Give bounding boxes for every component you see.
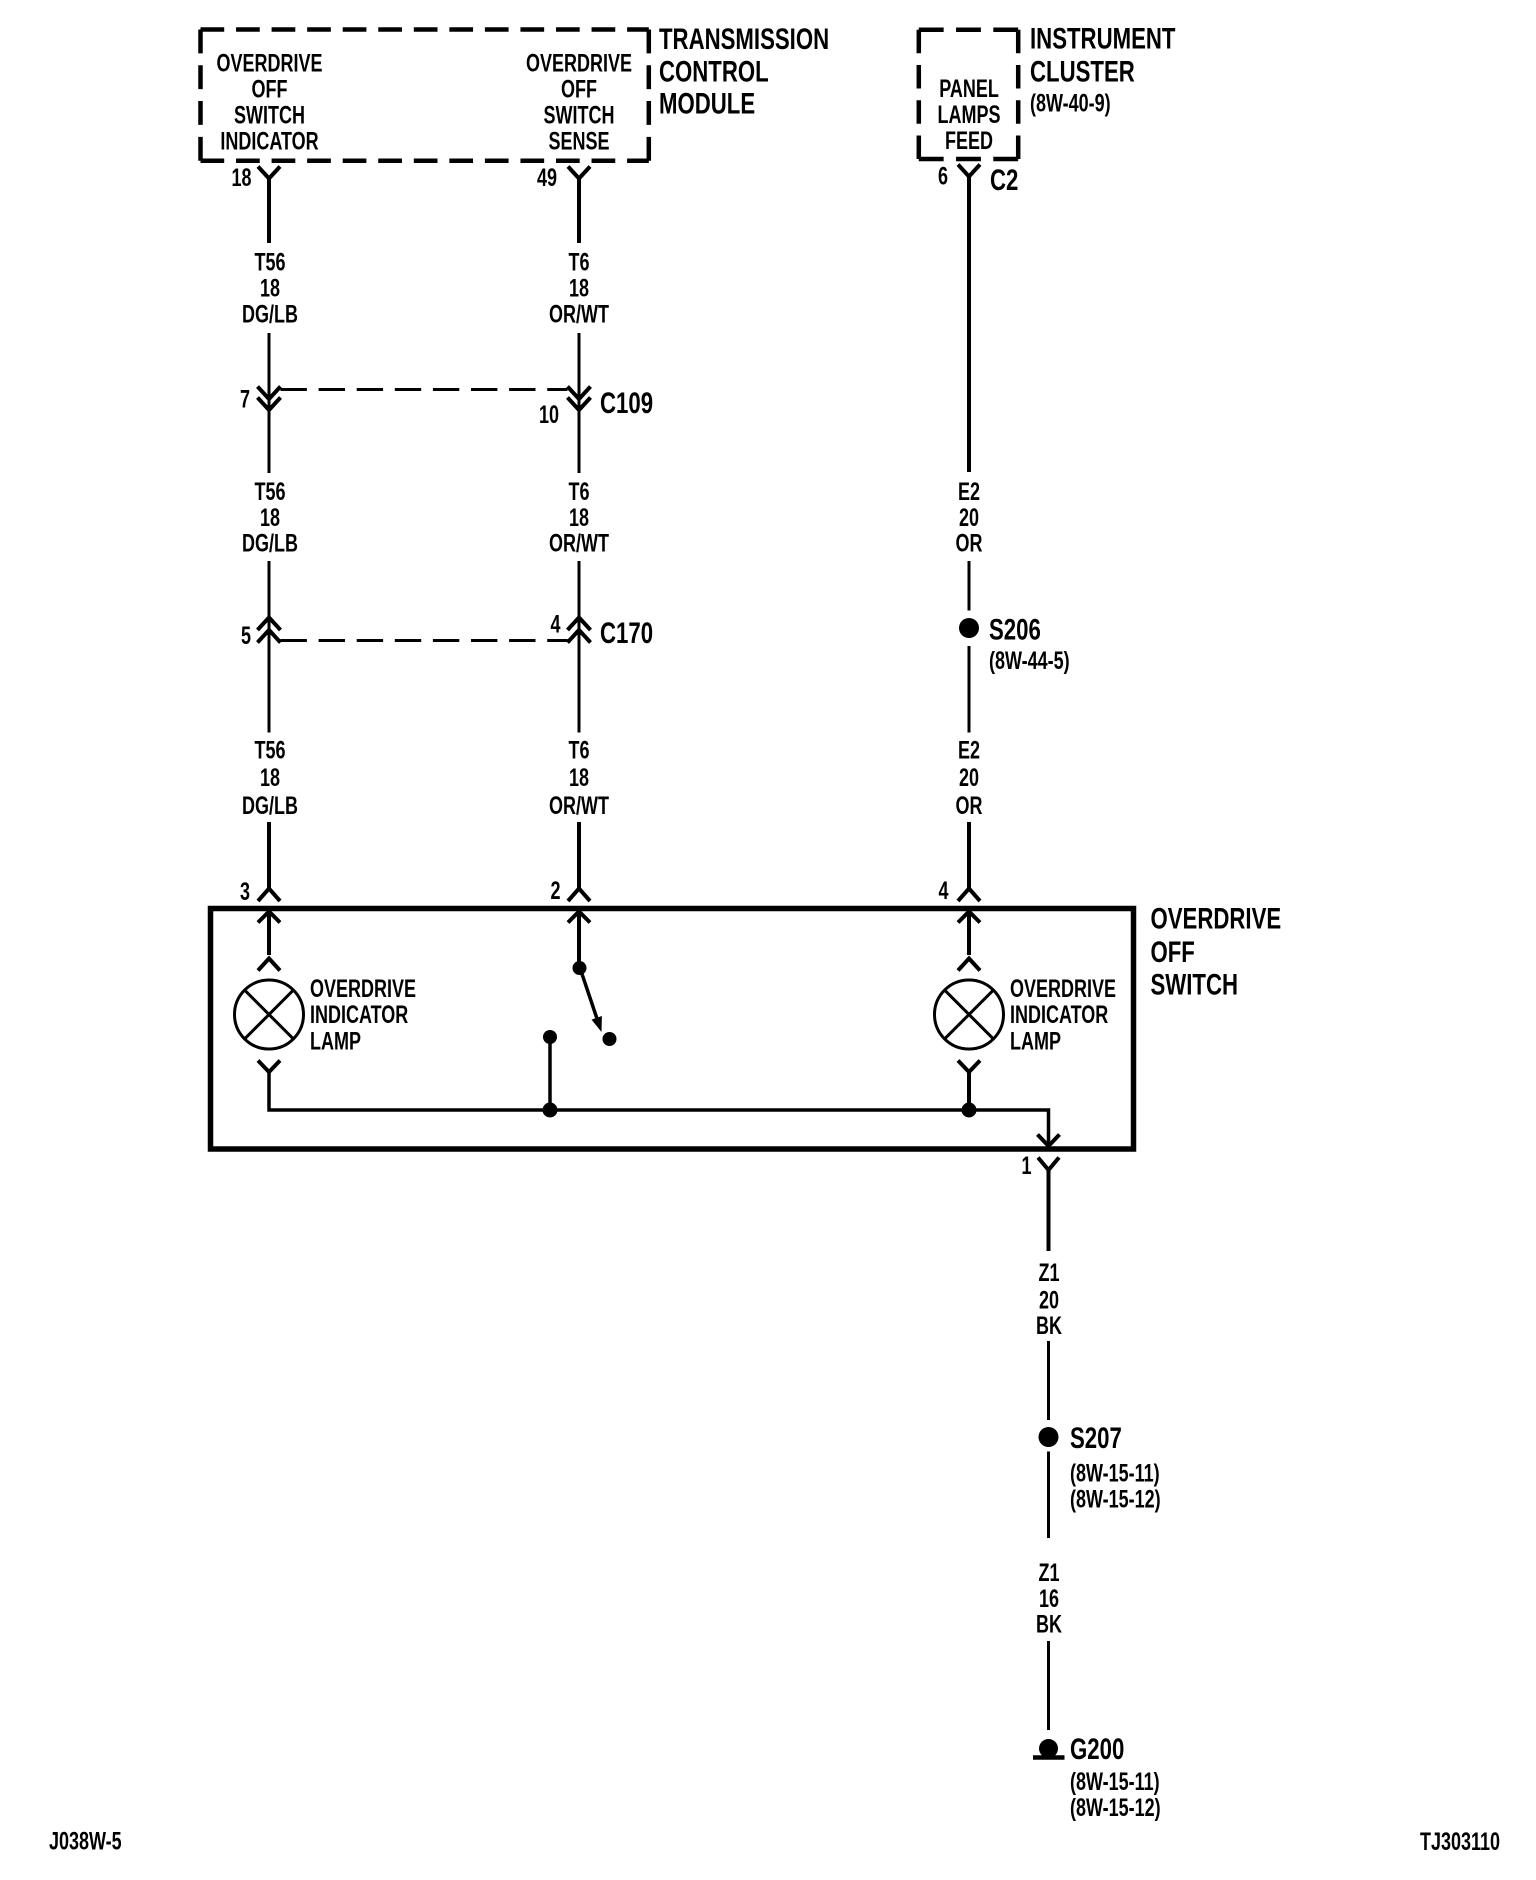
svg-text:OVERDRIVE: OVERDRIVE: [1010, 974, 1116, 1003]
svg-text:OR/WT: OR/WT: [549, 529, 610, 558]
splice S206: [959, 618, 979, 638]
svg-text:(8W-44-5): (8W-44-5): [989, 646, 1070, 675]
svg-text:SWITCH: SWITCH: [1151, 967, 1239, 1001]
wire label T6 18 OR/WT (third, middle column): [549, 736, 610, 820]
svg-text:OFF: OFF: [1151, 935, 1195, 969]
svg-text:J038W-5: J038W-5: [49, 1827, 122, 1856]
svg-text:CLUSTER: CLUSTER: [1030, 54, 1135, 88]
pin 18 connector at TCM: [258, 167, 280, 244]
svg-text:LAMP: LAMP: [310, 1027, 361, 1056]
label: overdrive indicator lamp (left): [310, 974, 416, 1055]
wire down to splice S207: [1047, 1341, 1050, 1420]
title: OVERDRIVE OFF SWITCH: [1151, 901, 1282, 1001]
pin 1 male arrow at box bottom: [1038, 1135, 1060, 1147]
wire label T56 18 DG/LB (top, left column): [242, 248, 298, 329]
wire left column from label to below C109: [268, 333, 271, 473]
connector C109 pin 7 chevrons: [258, 387, 281, 411]
svg-text:DG/LB: DG/LB: [242, 791, 298, 820]
svg-text:18: 18: [569, 503, 589, 532]
svg-text:C170: C170: [600, 616, 653, 650]
svg-text:SENSE: SENSE: [549, 127, 610, 156]
lamp: overdrive indicator lamp (right): [935, 980, 1004, 1049]
connector C170 pin 5 chevrons: [258, 618, 281, 643]
junction dot on bus (right): [962, 1103, 977, 1118]
svg-text:(8W-15-11): (8W-15-11): [1070, 1767, 1160, 1796]
svg-text:INDICATOR: INDICATOR: [310, 1000, 408, 1029]
right lamp top chevron: [958, 959, 980, 971]
svg-text:5: 5: [241, 621, 251, 650]
pin 1 connector below box: [1038, 1158, 1059, 1252]
ground G200 symbol: [1033, 1739, 1065, 1758]
svg-text:OVERDRIVE: OVERDRIVE: [1151, 901, 1282, 935]
TCM pin label: overdrive off switch sense: [526, 49, 632, 156]
wire label T56 18 DG/LB (third, left column): [242, 736, 298, 820]
svg-text:BK: BK: [1036, 1311, 1062, 1340]
title: TRANSMISSION CONTROL MODULE: [659, 22, 829, 121]
svg-text:OVERDRIVE: OVERDRIVE: [310, 974, 416, 1003]
wire label E2 20 OR (second, right column): [956, 477, 983, 557]
IC pin label: panel lamps feed: [938, 74, 1001, 155]
wire below splice S207: [1047, 1452, 1050, 1539]
svg-text:SWITCH: SWITCH: [234, 101, 305, 130]
svg-text:DG/LB: DG/LB: [242, 300, 298, 329]
svg-text:LAMPS: LAMPS: [938, 100, 1001, 129]
svg-text:18: 18: [231, 163, 251, 192]
TCM pin label: overdrive off switch indicator: [217, 49, 323, 156]
svg-text:(8W-15-12): (8W-15-12): [1070, 1485, 1161, 1514]
connector C170 pin 4 chevrons: [568, 618, 591, 643]
svg-text:20: 20: [959, 763, 979, 792]
left lamp bottom connector into bus: [258, 1061, 280, 1073]
switch blade: [580, 968, 597, 1018]
svg-text:G200: G200: [1070, 1732, 1124, 1766]
svg-text:T56: T56: [254, 477, 285, 506]
svg-text:T6: T6: [569, 736, 590, 765]
svg-text:18: 18: [569, 763, 589, 792]
wire middle column from label to below C109: [578, 333, 581, 473]
svg-text:18: 18: [260, 503, 280, 532]
svg-text:T6: T6: [569, 248, 590, 277]
svg-text:1: 1: [1021, 1151, 1031, 1180]
svg-text:TRANSMISSION: TRANSMISSION: [659, 22, 829, 56]
svg-text:49: 49: [537, 163, 557, 192]
instrument cluster dashed box: [919, 30, 1018, 159]
svg-text:T56: T56: [254, 736, 285, 765]
svg-text:OR/WT: OR/WT: [549, 791, 610, 820]
svg-text:18: 18: [569, 274, 589, 303]
svg-text:CONTROL: CONTROL: [659, 54, 769, 88]
connector C109 pin 10 chevrons: [568, 387, 591, 411]
pin 6 connector at IC with wire down to S206: [958, 165, 980, 473]
switch blade arrowhead: [592, 1016, 602, 1032]
svg-text:(8W-15-12): (8W-15-12): [1070, 1793, 1161, 1822]
svg-text:TJ303110: TJ303110: [1420, 1827, 1500, 1856]
svg-text:3: 3: [240, 877, 250, 906]
svg-text:OFF: OFF: [561, 75, 597, 104]
switch left contact dot: [543, 1030, 557, 1044]
svg-text:4: 4: [550, 610, 560, 639]
svg-text:OR/WT: OR/WT: [549, 300, 610, 329]
svg-text:INDICATOR: INDICATOR: [220, 127, 318, 156]
svg-text:(8W-15-11): (8W-15-11): [1070, 1459, 1160, 1488]
wire right column from splice: [968, 646, 971, 733]
wire label T6 18 OR/WT (second, middle column): [549, 477, 610, 557]
svg-text:16: 16: [1039, 1584, 1059, 1613]
left lamp top chevron: [258, 959, 280, 971]
svg-text:2: 2: [550, 876, 560, 905]
pin 3 male arrow inside box: [258, 912, 280, 956]
svg-text:C2: C2: [990, 163, 1018, 197]
wire label T56 18 DG/LB (second, left column): [242, 477, 298, 557]
svg-text:OFF: OFF: [252, 75, 288, 104]
right lamp bottom connector into bus: [958, 1061, 980, 1111]
wire down to ground: [1047, 1641, 1050, 1730]
svg-text:INSTRUMENT: INSTRUMENT: [1030, 21, 1175, 55]
svg-text:C109: C109: [600, 386, 653, 420]
wire middle column to switch box pin 2: [568, 822, 590, 901]
svg-text:SWITCH: SWITCH: [544, 101, 615, 130]
svg-text:18: 18: [260, 763, 280, 792]
svg-text:(8W-40-9): (8W-40-9): [1030, 89, 1111, 118]
svg-text:T56: T56: [254, 248, 285, 277]
svg-text:BK: BK: [1036, 1610, 1062, 1639]
transmission control module dashed box: [201, 30, 649, 161]
lamp: overdrive indicator lamp (left): [235, 980, 304, 1049]
svg-text:LAMP: LAMP: [1010, 1027, 1061, 1056]
svg-text:OVERDRIVE: OVERDRIVE: [526, 49, 632, 78]
overdrive off switch box: [211, 909, 1134, 1150]
splice S207: [1039, 1427, 1059, 1447]
wire middle column through C170: [578, 561, 581, 733]
svg-text:T6: T6: [569, 477, 590, 506]
svg-text:18: 18: [260, 274, 280, 303]
pin 2 male arrow inside box: [568, 912, 590, 962]
svg-text:10: 10: [539, 400, 559, 429]
svg-text:4: 4: [938, 876, 948, 905]
svg-text:7: 7: [240, 385, 250, 414]
svg-text:DG/LB: DG/LB: [242, 529, 298, 558]
pin 4 male arrow inside box: [958, 912, 980, 956]
wire label Z1 20 BK: [1036, 1258, 1062, 1340]
wire right column to switch box pin 4: [958, 822, 980, 901]
svg-text:OR: OR: [956, 529, 983, 558]
switch right contact dot: [603, 1032, 617, 1046]
pin 49 connector at TCM: [568, 167, 590, 244]
wire label T6 18 OR/WT (top, middle column): [549, 248, 610, 329]
dashed connector link C109: [281, 388, 568, 391]
junction dot on bus (middle): [543, 1103, 558, 1118]
svg-text:FEED: FEED: [945, 126, 993, 155]
svg-text:E2: E2: [958, 477, 980, 506]
dashed connector link C170: [281, 639, 568, 642]
ground bus inside switch box: [269, 1072, 1049, 1146]
svg-text:S206: S206: [989, 612, 1041, 646]
svg-text:PANEL: PANEL: [939, 74, 999, 103]
svg-text:OVERDRIVE: OVERDRIVE: [217, 49, 323, 78]
svg-text:20: 20: [1039, 1286, 1059, 1315]
wire left column to switch box pin 3: [258, 822, 280, 901]
svg-text:MODULE: MODULE: [659, 86, 755, 120]
svg-text:20: 20: [959, 503, 979, 532]
wire left column through C170: [268, 561, 271, 733]
title: INSTRUMENT CLUSTER (8W-40-9): [1030, 21, 1175, 117]
svg-text:Z1: Z1: [1039, 1258, 1060, 1287]
switch pivot dot: [573, 961, 587, 975]
svg-text:S207: S207: [1070, 1421, 1122, 1455]
svg-text:INDICATOR: INDICATOR: [1010, 1000, 1108, 1029]
label: overdrive indicator lamp (right): [1010, 974, 1116, 1055]
svg-text:OR: OR: [956, 791, 983, 820]
svg-text:6: 6: [938, 162, 948, 191]
wire label Z1 16 BK: [1036, 1558, 1062, 1638]
wire label E2 20 OR (third, right column): [956, 736, 983, 820]
wire from left contact to bus: [548, 1037, 552, 1110]
svg-text:Z1: Z1: [1039, 1558, 1060, 1587]
wire right column into splice: [968, 561, 971, 611]
svg-text:E2: E2: [958, 736, 980, 765]
